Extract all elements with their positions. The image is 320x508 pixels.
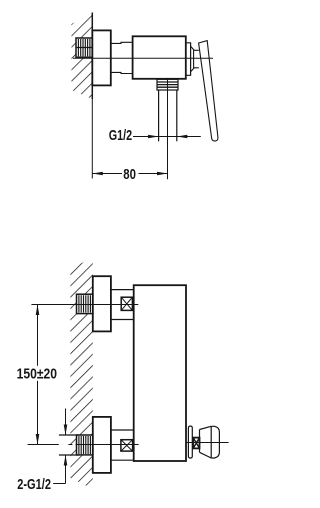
svg-text:2-G1/2: 2-G1/2 — [17, 475, 51, 492]
svg-text:150±20: 150±20 — [17, 365, 58, 382]
svg-text:G1/2: G1/2 — [109, 126, 132, 143]
svg-text:80: 80 — [123, 166, 136, 183]
